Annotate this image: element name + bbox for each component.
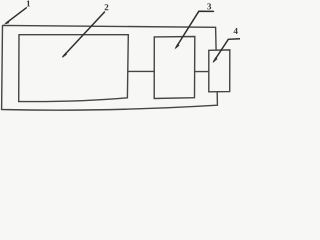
block 4 <box>209 50 230 92</box>
block 2 <box>19 35 129 102</box>
label numeral 4 <box>234 28 238 34</box>
wire from block 3 to block 4 <box>195 71 209 73</box>
arrowhead of leader 3 <box>175 44 180 50</box>
block 3 <box>154 37 195 99</box>
arrowhead of leader 1 <box>3 20 9 24</box>
wire from block 2 to block 3 <box>128 70 154 72</box>
leader line for label 4 <box>214 39 240 62</box>
arrowhead of leader 2 <box>62 53 67 59</box>
outer enclosure 1 <box>2 25 218 110</box>
leader line for label 1 <box>6 8 26 23</box>
label numeral 3 <box>207 3 211 9</box>
arrowhead of leader 4 <box>213 57 218 63</box>
label numeral 1 <box>27 0 30 6</box>
label numeral 2 <box>105 4 109 10</box>
leader line for label 2 <box>63 12 105 57</box>
leader line for label 3 <box>176 11 214 47</box>
